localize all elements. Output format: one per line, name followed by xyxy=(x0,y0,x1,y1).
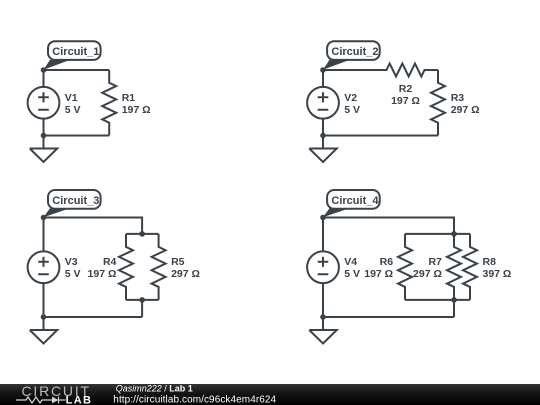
svg-text:5 V: 5 V xyxy=(65,268,81,280)
svg-text:V4: V4 xyxy=(344,256,357,268)
svg-text:197 Ω: 197 Ω xyxy=(364,268,393,280)
svg-text:R7: R7 xyxy=(428,256,442,268)
svg-text:5 V: 5 V xyxy=(65,104,81,116)
svg-text:297 Ω: 297 Ω xyxy=(171,268,200,280)
svg-text:197 Ω: 197 Ω xyxy=(122,104,151,116)
svg-text:V1: V1 xyxy=(65,92,78,104)
svg-text:5 V: 5 V xyxy=(344,268,360,280)
svg-text:R3: R3 xyxy=(451,92,465,104)
svg-text:V2: V2 xyxy=(344,92,357,104)
svg-text:LAB: LAB xyxy=(66,394,93,405)
svg-text:397 Ω: 397 Ω xyxy=(483,268,512,280)
svg-text:R8: R8 xyxy=(483,256,497,268)
svg-text:Circuit_4: Circuit_4 xyxy=(331,195,379,207)
svg-text:197 Ω: 197 Ω xyxy=(88,268,117,280)
svg-text:V3: V3 xyxy=(65,256,78,268)
svg-text:197 Ω: 197 Ω xyxy=(391,95,420,107)
svg-text:R4: R4 xyxy=(103,256,117,268)
svg-text:R5: R5 xyxy=(171,256,185,268)
svg-text:297 Ω: 297 Ω xyxy=(413,268,442,280)
svg-text:Circuit_3: Circuit_3 xyxy=(52,195,99,207)
svg-text:http://circuitlab.com/c96ck4em: http://circuitlab.com/c96ck4em4r624 xyxy=(113,394,276,405)
svg-text:R1: R1 xyxy=(122,92,136,104)
svg-text:R6: R6 xyxy=(380,256,394,268)
svg-text:Circuit_2: Circuit_2 xyxy=(331,46,378,58)
svg-text:Qasimn222 / Lab 1: Qasimn222 / Lab 1 xyxy=(116,384,193,394)
svg-text:Circuit_1: Circuit_1 xyxy=(52,46,99,58)
svg-text:R2: R2 xyxy=(399,83,413,95)
svg-text:297 Ω: 297 Ω xyxy=(451,104,480,116)
svg-text:5 V: 5 V xyxy=(344,104,360,116)
